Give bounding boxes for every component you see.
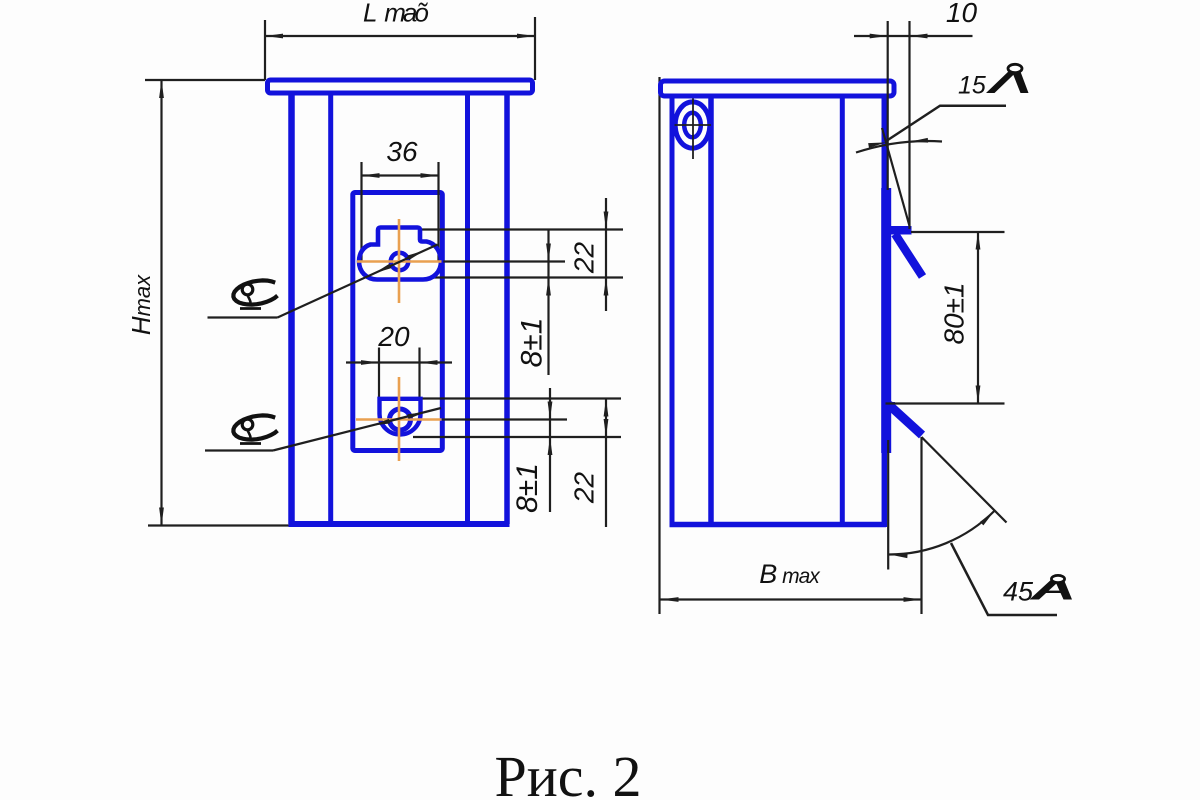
- svg-text:8±1: 8±1: [516, 318, 549, 368]
- upper hole circle: [391, 253, 409, 271]
- right view: right edge lower part: [882, 453, 888, 527]
- right view: lower latch tilted bar: [889, 405, 923, 436]
- upper center mark cross: [398, 219, 401, 303]
- dimension: 36 dim line with arrows: [362, 174, 439, 176]
- left view: body bottom edge: [289, 521, 510, 527]
- lower pocket outline: [380, 399, 421, 435]
- leader lower hole: shelf and diagonal with arrows: [205, 449, 273, 451]
- dimension: lower 8+-1 line with arrows: [549, 388, 551, 512]
- left view: inner vertical line right: [465, 95, 470, 521]
- dimension: upper 8+-1 line with arrows: [547, 230, 549, 376]
- leader lower hole: diameter symbol: [233, 415, 277, 443]
- reference line from slot bottom: [432, 276, 623, 278]
- right view: upper latch tilted bar: [895, 234, 923, 277]
- label: A symbol after 45: [1030, 575, 1073, 599]
- left view: inner vertical line left: [328, 95, 333, 521]
- reference line from upper hole center: [442, 260, 566, 262]
- dimension: 20 dim line with arrows: [346, 361, 452, 363]
- dimension: lower 22 line with arrows: [605, 399, 607, 528]
- 45 degree vertical reference line: [887, 440, 889, 570]
- dimension: 80+-1 line with arrows: [977, 232, 979, 404]
- right view: long extension line at left edge: [658, 77, 660, 614]
- right view: top cap flange: [661, 81, 895, 96]
- upper keyhole slot outline: [359, 228, 441, 280]
- right view: inner vertical line 1: [708, 98, 714, 524]
- lower hole circle: [390, 409, 411, 430]
- 15 degree tilted latch line: [882, 128, 910, 226]
- svg-text:45: 45: [1003, 577, 1034, 607]
- 15 degree angle arc with arrows: [856, 141, 942, 153]
- label: A symbol after 15: [986, 64, 1029, 93]
- left view: body left edge: [288, 95, 295, 524]
- dimension: 10 extension lines: [887, 21, 889, 190]
- svg-text:36: 36: [386, 136, 418, 167]
- dimension: B max dim line with arrows: [661, 598, 922, 600]
- svg-text:Рис. 2: Рис. 2: [494, 744, 641, 800]
- left view: top cap flange: [268, 80, 533, 93]
- dimension: L-dim extension lines: [264, 20, 266, 80]
- reference line from slot top: [421, 228, 624, 230]
- svg-text:10: 10: [946, 0, 978, 28]
- right view: upper latch horizontal bar: [884, 226, 912, 235]
- B max extension line right (from latch tip): [920, 437, 922, 614]
- reference line from upper latch: [911, 231, 1005, 233]
- dimension: Hmax vertical line with arrows: [160, 80, 162, 526]
- svg-text:22: 22: [569, 242, 600, 275]
- right view: inner vertical line 2: [840, 98, 845, 524]
- svg-text:15: 15: [958, 72, 986, 100]
- right view: screw head outer ellipse: [675, 102, 710, 148]
- reference line from pocket top: [421, 397, 621, 399]
- left view: inner recessed panel: [353, 193, 443, 451]
- leader 15 deg: bent line and shelf: [886, 106, 1007, 142]
- right view: screw cross lines: [692, 99, 694, 160]
- dimension: L-dim line with arrows: [265, 35, 535, 37]
- left view: body right edge: [504, 95, 510, 524]
- dimension: 36 extension lines: [360, 162, 362, 262]
- lower center mark cross: [398, 377, 401, 461]
- svg-text:20: 20: [377, 321, 410, 352]
- right view: body bottom edge: [670, 522, 887, 528]
- right view: lower latch horizontal bar: [884, 402, 895, 407]
- right view: body left edge: [670, 98, 675, 524]
- 45 degree line from latch tip: [922, 437, 1007, 523]
- leader upper hole: diameter symbol: [233, 280, 277, 308]
- svg-text:22: 22: [569, 472, 600, 505]
- dimension: upper 22 line with arrows: [605, 198, 607, 311]
- svg-text:B max: B max: [759, 559, 821, 589]
- svg-text:80±1: 80±1: [939, 282, 970, 344]
- svg-text:8±1: 8±1: [511, 463, 544, 513]
- reference line from lower hole center: [442, 418, 567, 420]
- reference line from lower latch: [886, 402, 1005, 404]
- right view: right edge middle thick part: [881, 188, 891, 453]
- dimension: 10 dim line with arrows: [854, 35, 973, 37]
- reference line from pocket bottom: [413, 436, 621, 438]
- right view: right edge upper part: [882, 98, 888, 188]
- 45 degree angle arc with arrows: [889, 511, 994, 555]
- svg-text:L maõ: L maõ: [363, 0, 428, 28]
- right view: screw head inner ellipse: [684, 113, 701, 138]
- svg-text:Hmax: Hmax: [126, 274, 156, 335]
- leader upper hole: shelf and diagonal with arrows: [208, 316, 278, 318]
- leader 45 deg: diagonal and shelf: [951, 543, 1057, 615]
